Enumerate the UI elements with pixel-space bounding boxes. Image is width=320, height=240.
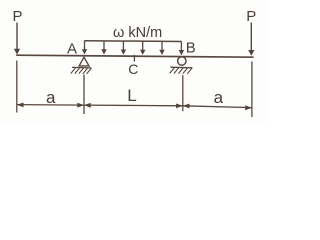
svg-text:B: B bbox=[186, 39, 196, 56]
extension line left end bbox=[16, 61, 18, 113]
dimension arrowhead right end (points right) bbox=[245, 105, 252, 110]
distributed load arrow 1 bbox=[82, 41, 87, 55]
roller support B hatch strokes bbox=[170, 68, 192, 74]
svg-text:P: P bbox=[246, 8, 256, 25]
extension line at B bbox=[182, 75, 184, 111]
svg-text:ω kN/m: ω kN/m bbox=[113, 25, 162, 41]
pin support A ground line bbox=[72, 66, 91, 69]
point load P (left) wire bbox=[16, 23, 18, 51]
svg-text:a: a bbox=[46, 88, 56, 107]
pin support A triangle bbox=[79, 57, 89, 66]
distributed load arrow 2 bbox=[101, 41, 106, 55]
distributed load top line bbox=[84, 40, 181, 43]
dimension line bbox=[17, 105, 252, 108]
distributed load arrow 4 bbox=[140, 41, 145, 55]
extension line at A bbox=[83, 74, 85, 114]
svg-text:P: P bbox=[12, 8, 22, 25]
svg-text:C: C bbox=[128, 61, 138, 77]
distributed load arrow 5 bbox=[159, 41, 164, 55]
distributed load arrow 6 bbox=[179, 41, 184, 55]
dimension arrowheads at B (point right and left) bbox=[176, 104, 183, 109]
extension line right end bbox=[251, 62, 253, 118]
svg-text:A: A bbox=[67, 41, 77, 58]
svg-text:a: a bbox=[214, 88, 224, 107]
distributed load arrow 3 bbox=[121, 41, 126, 55]
dimension arrowhead left end (points left) bbox=[17, 103, 24, 108]
node C tick on beam bbox=[133, 55, 135, 62]
roller support B ground line bbox=[170, 66, 192, 69]
beam bbox=[16, 55, 253, 57]
dimension arrowheads at A (point right and left) bbox=[77, 103, 84, 108]
point load P (right) wire bbox=[250, 23, 252, 52]
point load P (left) arrowhead bbox=[14, 49, 20, 55]
pin support A hatch strokes bbox=[71, 68, 92, 74]
svg-text:L: L bbox=[127, 86, 136, 105]
point load P (right) arrowhead bbox=[248, 50, 254, 56]
roller support B circle bbox=[178, 57, 186, 65]
